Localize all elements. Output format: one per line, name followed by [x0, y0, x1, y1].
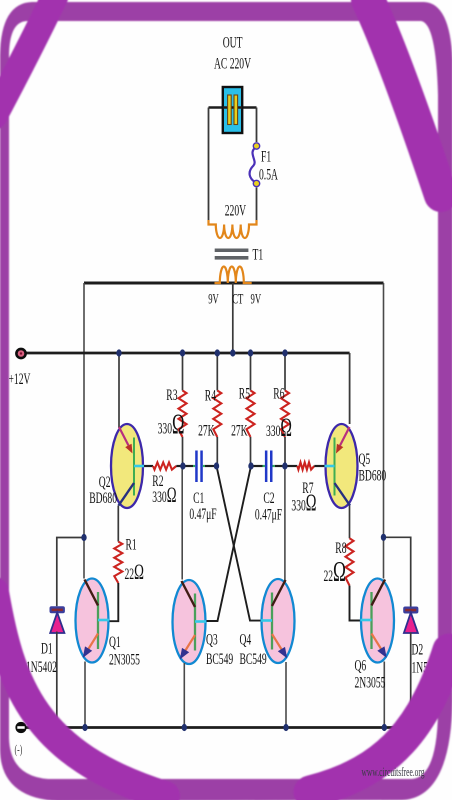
svg-text:BD680: BD680	[89, 488, 117, 506]
frame swoosh bottom-right	[310, 650, 449, 792]
node junction 12	[381, 534, 386, 541]
svg-text:www.circuitsfree.org: www.circuitsfree.org	[361, 766, 424, 779]
wire R5 bottom	[250, 437, 252, 466]
wire left collector drop	[83, 283, 85, 579]
resistor R8	[346, 538, 354, 585]
wire Q2 emitter feed	[118, 353, 120, 428]
wire Q2 base to R2	[144, 465, 154, 467]
svg-text:+12V: +12V	[9, 369, 31, 387]
capacitor C1	[195, 451, 203, 483]
wire R1 to Q1 base	[108, 583, 118, 621]
resistor R3	[179, 391, 187, 438]
wire node D to Q4 collector	[284, 466, 286, 581]
svg-text:0.5A: 0.5A	[259, 165, 278, 183]
wire socket right drop to fuse	[256, 108, 258, 143]
+12V terminal	[16, 349, 25, 358]
wire R8 to Q6 base	[350, 586, 362, 621]
svg-text:27K: 27K	[231, 421, 248, 439]
wire R5 top	[250, 353, 252, 391]
diode D2 1N5402	[403, 607, 418, 634]
svg-text:R4: R4	[205, 386, 216, 404]
transformer T1 core	[215, 249, 249, 260]
svg-text:AC 220V: AC 220V	[214, 54, 251, 72]
resistor R7	[297, 462, 314, 469]
transistor Q2 BD680	[111, 424, 144, 508]
bottom rail	[26, 726, 411, 729]
wire node B to Q4 base (cross)	[217, 466, 263, 621]
wire center tap	[232, 283, 234, 353]
wire R3 bottom	[182, 437, 184, 466]
svg-text:R6: R6	[273, 384, 284, 402]
wire Q3 emitter drop	[183, 663, 185, 728]
svg-text:Q5: Q5	[359, 449, 371, 467]
svg-text:Q1: Q1	[109, 632, 121, 650]
svg-text:R5: R5	[239, 384, 250, 402]
wire R4 bottom	[216, 437, 218, 466]
wire Q4 emitter drop	[285, 662, 287, 728]
wire C1 to node B	[203, 465, 205, 467]
svg-text:BC549: BC549	[206, 649, 233, 667]
negative terminal	[15, 722, 26, 733]
node junction 14	[182, 724, 187, 731]
transistor Q6 2N3055	[361, 579, 395, 663]
svg-text:R1: R1	[126, 535, 137, 553]
svg-text:T1: T1	[253, 245, 264, 263]
wire C2 to node D	[273, 465, 275, 467]
node junction 10	[282, 462, 287, 469]
svg-text:Q6: Q6	[355, 656, 367, 674]
svg-text:D1: D1	[41, 639, 53, 657]
wire Q5 emitter feed	[349, 353, 351, 424]
transistor Q5 BD680	[325, 424, 358, 508]
wire socket left drop	[208, 108, 210, 223]
svg-text:(-): (-)	[15, 743, 23, 758]
wire socket top horizontal	[209, 106, 257, 109]
wire right collector drop	[383, 283, 385, 579]
wire node C to C2	[251, 465, 263, 467]
node junction 6	[282, 349, 287, 356]
output socket	[223, 87, 242, 133]
frame swoosh top-left	[0, 0, 55, 116]
node junction 8	[214, 462, 219, 469]
transformer T1 secondary winding	[215, 267, 252, 284]
svg-text:F1: F1	[261, 147, 271, 165]
wire D2 branch	[384, 537, 411, 607]
wire Q1 emitter drop	[84, 662, 86, 728]
transistor Q1 2N3055	[76, 579, 110, 663]
wire R7 to Q5 base	[314, 465, 326, 467]
node junction 4	[230, 349, 235, 356]
node junction 13	[82, 724, 87, 731]
svg-text:Q3: Q3	[206, 630, 218, 648]
svg-text:D2: D2	[412, 640, 424, 658]
svg-text:C2: C2	[263, 488, 274, 506]
wire R3 top	[182, 353, 184, 391]
node junction 1	[116, 349, 121, 356]
svg-text:9V: 9V	[250, 290, 261, 307]
svg-text:BD680: BD680	[359, 466, 387, 484]
wire node C to Q3 base (cross)	[205, 466, 251, 621]
diode D1 1N5402	[50, 606, 65, 633]
wire node D to R7	[285, 465, 297, 467]
svg-text:BC549: BC549	[240, 649, 267, 667]
svg-text:220V: 220V	[225, 201, 247, 219]
resistor R4	[213, 391, 221, 438]
capacitor C2	[265, 451, 273, 483]
wire R2 to node A	[176, 465, 183, 467]
wire R4 top	[216, 353, 218, 391]
frame swoosh bottom-left	[0, 592, 165, 796]
svg-text:0.47μF: 0.47μF	[255, 505, 282, 523]
svg-text:OUT: OUT	[223, 33, 243, 51]
frame swoosh top-right	[368, 0, 441, 195]
wire Q5 collector to R8	[349, 506, 351, 539]
node junction 15	[283, 724, 288, 731]
node junction 9	[248, 462, 253, 469]
svg-text:Q4: Q4	[240, 630, 252, 648]
resistor R5	[247, 391, 255, 438]
wire D2 to bottom rail	[410, 633, 412, 728]
transistor Q3 BC549	[173, 580, 207, 664]
+12V rail	[25, 352, 350, 355]
wire Q2 collector to R1	[117, 506, 119, 542]
top rail (transformer secondary bus)	[84, 282, 384, 285]
svg-text:0.47μF: 0.47μF	[189, 504, 216, 522]
resistor R1	[114, 542, 122, 583]
svg-text:CT: CT	[232, 290, 244, 307]
wire node A to C1	[183, 465, 193, 467]
wire R6 bottom	[284, 437, 286, 466]
wire Q6 emitter drop	[383, 662, 385, 728]
fuse F1	[250, 143, 260, 187]
svg-text:R3: R3	[166, 385, 177, 403]
node junction 3	[215, 349, 220, 356]
node junction 11	[81, 534, 86, 541]
wire D1 branch	[57, 538, 84, 607]
resistor R2	[153, 462, 176, 469]
svg-text:2N3055: 2N3055	[355, 673, 386, 691]
resistor R6	[281, 391, 289, 438]
svg-text:2N3055: 2N3055	[109, 650, 140, 668]
node junction 16	[382, 724, 387, 731]
node junction 7	[180, 462, 185, 469]
node junction 5	[248, 349, 253, 356]
wire R6 top	[284, 353, 286, 391]
svg-text:9V: 9V	[208, 290, 219, 307]
wire node A to Q3 collector	[181, 466, 183, 580]
wire fuse to primary	[256, 188, 258, 223]
transistor Q4 BC549	[261, 579, 295, 663]
transformer T1 primary winding	[209, 220, 257, 238]
node junction 2	[180, 349, 185, 356]
svg-text:R8: R8	[335, 538, 346, 556]
wire D1 to bottom rail	[56, 632, 58, 728]
svg-text:27K: 27K	[198, 421, 215, 439]
